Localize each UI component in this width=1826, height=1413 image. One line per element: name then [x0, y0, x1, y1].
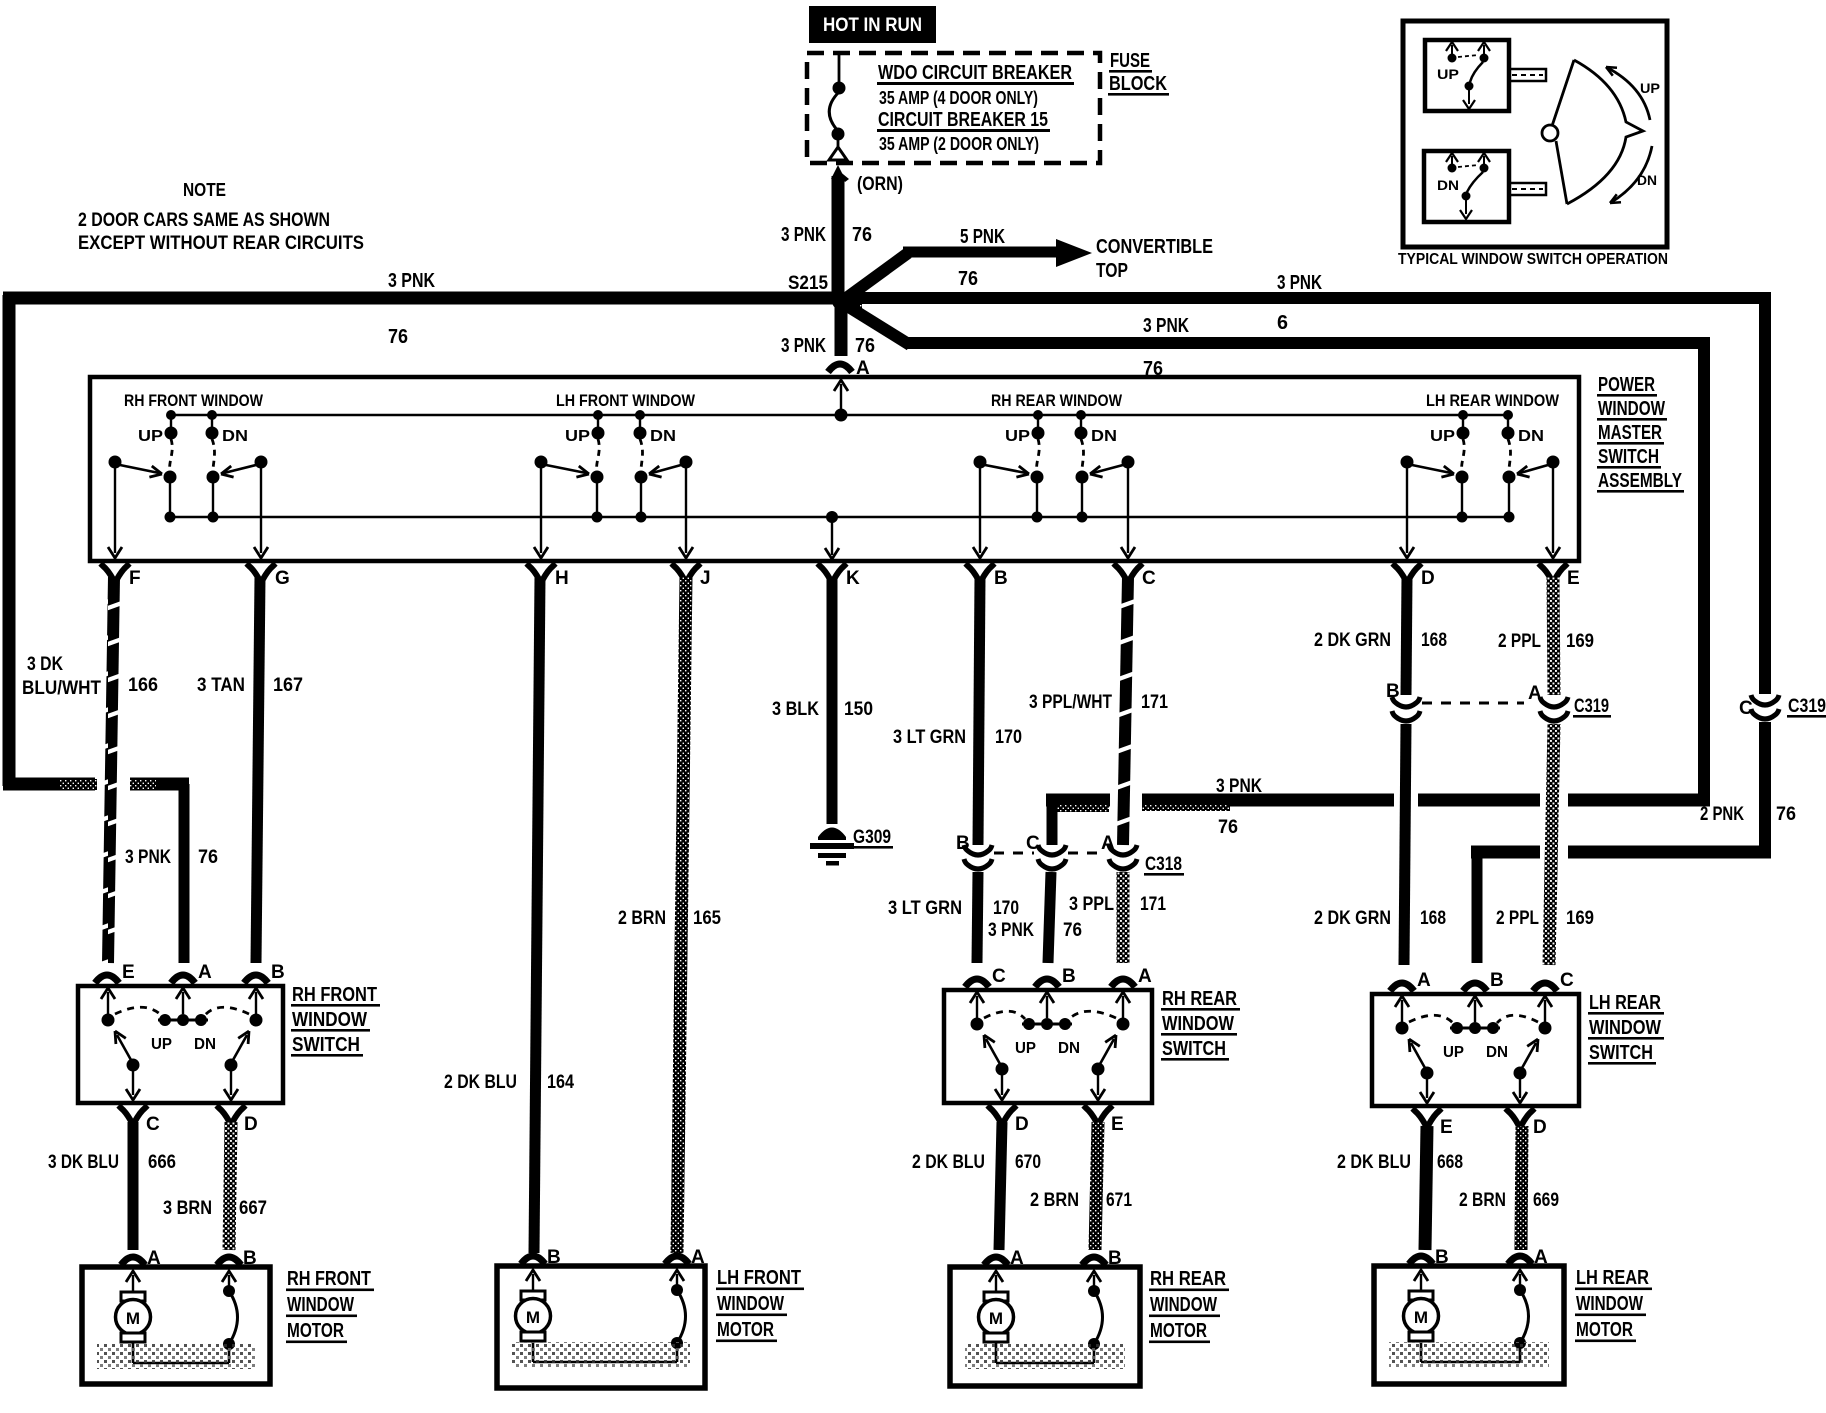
svg-text:WINDOW: WINDOW	[1150, 1294, 1217, 1316]
LH rear window rest blades dashed	[1409, 1015, 1453, 1023]
svg-text:2 PPL: 2 PPL	[1496, 908, 1539, 929]
RH rear window UP contact	[1037, 415, 1039, 428]
svg-text:A: A	[1101, 833, 1115, 854]
connector C319 left pair	[1392, 697, 1420, 707]
svg-text:D: D	[1533, 1117, 1547, 1138]
wire 2 PPL 169 from E to connector C319	[1553, 577, 1554, 695]
svg-text:DN: DN	[1091, 428, 1117, 445]
rocker UP arc arrow	[1606, 67, 1650, 120]
svg-text:M: M	[1414, 1308, 1428, 1327]
svg-text:RH REAR: RH REAR	[1150, 1268, 1226, 1290]
svg-text:171: 171	[1141, 692, 1168, 713]
LH rear window UP blade dashed	[1462, 439, 1465, 471]
RH rear window right blade with arrow	[1092, 1063, 1105, 1076]
RH rear window rest blades dashed	[984, 1011, 1025, 1019]
svg-text:3 PPL/WHT: 3 PPL/WHT	[1029, 692, 1112, 713]
LH front window UP blade dashed	[597, 439, 600, 471]
svg-text:F: F	[129, 568, 141, 589]
svg-text:C318: C318	[1145, 854, 1182, 875]
svg-text:2 BRN: 2 BRN	[1030, 1190, 1079, 1211]
svg-text:LH REAR: LH REAR	[1576, 1267, 1649, 1289]
svg-text:BLOCK: BLOCK	[1109, 73, 1167, 95]
svg-text:SWITCH: SWITCH	[1589, 1042, 1653, 1064]
RH front window center pivot cluster	[158, 1019, 208, 1022]
wire 3 PPL 171 below C318 to RH rear switch A	[1117, 872, 1130, 963]
svg-text:3 PNK: 3 PNK	[388, 270, 435, 292]
RH rear window outer contacts	[971, 1018, 984, 1031]
svg-text:2 DK GRN: 2 DK GRN	[1314, 908, 1391, 929]
svg-text:(ORN): (ORN)	[857, 174, 903, 195]
LH rear window pivots to bottom bus	[1456, 471, 1469, 484]
RH rear window left output drop	[979, 468, 981, 553]
svg-text:K: K	[846, 568, 860, 589]
svg-text:H: H	[555, 568, 569, 589]
switch paddle stems	[1509, 69, 1546, 81]
svg-text:S215: S215	[788, 273, 828, 294]
svg-text:3 PNK: 3 PNK	[1143, 315, 1189, 337]
LH rear window center pivot cluster	[1450, 1027, 1500, 1030]
svg-text:RH FRONT: RH FRONT	[287, 1268, 371, 1290]
ground G309	[818, 828, 846, 841]
svg-text:UP: UP	[138, 428, 163, 445]
wire 3 PPL/WHT 171 striped from C to connector C318	[1123, 577, 1128, 845]
wire 5 PNK branch to convertible top with arrow	[845, 253, 908, 299]
svg-text:UP: UP	[1005, 428, 1030, 445]
svg-text:UP: UP	[1430, 428, 1455, 445]
svg-text:HOT IN RUN: HOT IN RUN	[823, 15, 922, 36]
LH front window DN contact	[639, 415, 641, 428]
svg-text:169: 169	[1566, 631, 1594, 652]
RH rear window left contact with arrow to pivot	[974, 456, 987, 469]
svg-text:M: M	[989, 1309, 1003, 1328]
svg-text:76: 76	[852, 224, 872, 246]
RH front window terminal stems	[101, 988, 115, 999]
terminal A of master switch	[828, 364, 852, 372]
RH front window outer contacts	[102, 1014, 115, 1027]
svg-text:UP: UP	[1015, 1040, 1036, 1057]
svg-text:3 BLK: 3 BLK	[772, 699, 819, 720]
LH rear window right contact with arrow to pivot	[1547, 456, 1560, 469]
svg-text:D: D	[1421, 568, 1435, 589]
wire 2 DK BLU 670	[999, 1122, 1002, 1250]
RH rear window terminal caps	[984, 1257, 1008, 1265]
svg-text:WDO CIRCUIT BREAKER: WDO CIRCUIT BREAKER	[878, 62, 1072, 84]
wire 2 DK BLU 164 from H to LH front motor	[534, 577, 540, 1253]
circuit breaker 15 symbol	[838, 53, 841, 84]
svg-text:MOTOR: MOTOR	[717, 1319, 774, 1341]
connector C319 right	[1751, 695, 1779, 705]
svg-text:WINDOW: WINDOW	[1598, 398, 1665, 420]
RH front window motor box	[82, 1267, 270, 1384]
RH rear window left blade with arrow	[996, 1063, 1009, 1076]
RH front window pivots to bottom bus	[164, 471, 177, 484]
svg-text:2 DOOR CARS SAME AS SHOWN: 2 DOOR CARS SAME AS SHOWN	[78, 210, 330, 231]
RH front window terminal caps	[121, 1257, 145, 1265]
LH front window scan noise band	[512, 1342, 690, 1368]
svg-text:DN: DN	[1518, 428, 1544, 445]
svg-text:171: 171	[1140, 894, 1166, 915]
svg-text:76: 76	[198, 847, 218, 868]
wire ORN from splice S215 up to fuse block with arrow	[831, 165, 845, 179]
svg-text:3 PNK: 3 PNK	[1216, 776, 1262, 797]
svg-text:2 DK BLU: 2 DK BLU	[444, 1072, 517, 1093]
svg-text:DN: DN	[650, 428, 676, 445]
svg-text:B: B	[994, 568, 1008, 589]
svg-text:164: 164	[547, 1072, 574, 1093]
RH front window left blade with arrow	[127, 1059, 140, 1072]
RH front window left contact with arrow to pivot	[109, 456, 122, 469]
wire 3 BLK 150 from K to ground	[827, 577, 838, 824]
svg-text:EXCEPT WITHOUT REAR CIRCUITS: EXCEPT WITHOUT REAR CIRCUITS	[78, 233, 364, 254]
LH front window UP contact	[597, 415, 599, 428]
svg-text:E: E	[1111, 1114, 1124, 1135]
wire 2 BRN 671	[1095, 1122, 1098, 1250]
svg-text:668: 668	[1437, 1152, 1463, 1173]
svg-text:E: E	[1567, 568, 1580, 589]
svg-text:6: 6	[1277, 312, 1288, 334]
svg-text:2 DK BLU: 2 DK BLU	[1337, 1152, 1411, 1173]
svg-text:POWER: POWER	[1598, 374, 1655, 396]
svg-text:UP: UP	[565, 428, 590, 445]
svg-text:MOTOR: MOTOR	[287, 1320, 344, 1342]
terminal A feed into top bus	[834, 380, 848, 391]
svg-text:B: B	[1490, 970, 1504, 991]
wire 3 PNK 76 left from splice to left edge and down	[3, 292, 841, 305]
svg-text:WINDOW: WINDOW	[1576, 1293, 1643, 1315]
svg-text:C319: C319	[1574, 696, 1609, 717]
svg-text:A: A	[147, 1248, 161, 1269]
svg-text:671: 671	[1106, 1190, 1132, 1211]
svg-text:2 PNK: 2 PNK	[1700, 804, 1744, 825]
LH front window motor box	[497, 1266, 705, 1388]
LH front window terminal caps	[521, 1256, 545, 1264]
right wire 3 PNK from second branch down	[1698, 337, 1710, 806]
LH front window motor M symbol	[526, 1270, 540, 1281]
svg-text:168: 168	[1420, 908, 1446, 929]
svg-text:169: 169	[1566, 908, 1594, 929]
svg-text:C: C	[992, 966, 1006, 987]
svg-text:76: 76	[958, 268, 978, 290]
connector C318	[964, 845, 992, 855]
horizontal 2 PNK 76 jog to LH rear switch B	[1568, 846, 1771, 859]
wire 3 LT GRN 170 from B to connector C318	[978, 577, 980, 845]
svg-text:A: A	[1534, 1247, 1548, 1268]
svg-text:A: A	[1528, 683, 1542, 704]
RH rear window right output drop	[1127, 468, 1129, 553]
LH rear window UP contact	[1462, 415, 1464, 428]
svg-text:G309: G309	[853, 827, 891, 848]
RH front window UP blade dashed	[170, 439, 173, 471]
svg-text:168: 168	[1421, 630, 1447, 651]
svg-text:RH REAR WINDOW: RH REAR WINDOW	[991, 391, 1123, 410]
RH rear window UP blade dashed	[1037, 439, 1040, 471]
svg-text:3 PPL: 3 PPL	[1069, 894, 1114, 915]
svg-text:B: B	[1062, 966, 1076, 987]
svg-text:5 PNK: 5 PNK	[960, 226, 1005, 248]
svg-text:666: 666	[148, 1152, 176, 1173]
svg-text:A: A	[1417, 970, 1431, 991]
HOT IN RUN power tag	[809, 6, 936, 43]
LH rear window switch box	[1372, 994, 1579, 1106]
svg-text:DN: DN	[1058, 1040, 1080, 1057]
svg-text:A: A	[1010, 1248, 1024, 1269]
wire 2 BRN 165 from J to LH front motor	[677, 577, 686, 1253]
LH front window left contact with arrow to pivot	[535, 456, 548, 469]
LH front window pivots to bottom bus	[591, 471, 604, 484]
svg-text:TYPICAL WINDOW SWITCH OPERATIO: TYPICAL WINDOW SWITCH OPERATION	[1398, 251, 1668, 268]
svg-text:ASSEMBLY: ASSEMBLY	[1598, 470, 1682, 492]
svg-text:670: 670	[1015, 1152, 1041, 1173]
svg-text:2 DK GRN: 2 DK GRN	[1314, 630, 1391, 651]
RH rear window center pivot cluster	[1022, 1023, 1072, 1026]
svg-text:C319: C319	[1788, 696, 1826, 717]
svg-text:3 LT GRN: 3 LT GRN	[893, 727, 966, 748]
LH rear window terminal caps	[1409, 1256, 1433, 1264]
RH front window output drops	[132, 1068, 134, 1095]
svg-text:2 BRN: 2 BRN	[618, 908, 666, 929]
RH front window switch box	[78, 986, 283, 1103]
svg-text:3 DK: 3 DK	[27, 654, 63, 675]
RH front window motor M symbol	[126, 1271, 140, 1282]
LH rear window internal jumper	[1421, 1361, 1520, 1364]
rocker DN arc arrow	[1610, 146, 1652, 203]
svg-text:CIRCUIT BREAKER 15: CIRCUIT BREAKER 15	[878, 109, 1048, 131]
LH rear window left blade with arrow	[1421, 1067, 1434, 1080]
fuse block dashed box	[807, 53, 1100, 163]
LH front window right contact with arrow to pivot	[680, 456, 693, 469]
svg-text:G: G	[275, 568, 290, 589]
svg-text:RH FRONT WINDOW: RH FRONT WINDOW	[124, 391, 264, 410]
RH front window DN blade dashed	[212, 439, 215, 471]
svg-text:C: C	[146, 1114, 160, 1135]
svg-text:DN: DN	[1637, 172, 1657, 188]
svg-text:2 PPL: 2 PPL	[1498, 631, 1541, 652]
svg-text:UP: UP	[1437, 66, 1459, 82]
svg-text:A: A	[198, 962, 212, 983]
svg-text:DN: DN	[1437, 177, 1459, 193]
LH front window right output drop	[685, 468, 687, 553]
svg-text:SWITCH: SWITCH	[292, 1034, 360, 1056]
svg-text:76: 76	[1063, 920, 1082, 941]
wire 3 BRN 667	[229, 1122, 231, 1250]
LH front window left output drop	[540, 468, 542, 553]
svg-text:M: M	[126, 1309, 140, 1328]
LH rear window scan noise band	[1389, 1342, 1549, 1368]
RH front window UP contact	[170, 415, 172, 428]
RH rear window output drops	[1001, 1072, 1003, 1095]
RH front window scan noise band	[97, 1343, 255, 1369]
master switch top bus wire	[171, 414, 1508, 417]
wire 3 PNK upper right from splice to right side	[846, 292, 1771, 304]
typical switch UP contact detail box	[1425, 40, 1509, 111]
RH rear window scan noise band	[965, 1343, 1125, 1369]
svg-text:667: 667	[239, 1198, 267, 1219]
svg-text:C: C	[1026, 833, 1040, 854]
svg-text:UP: UP	[1443, 1044, 1464, 1061]
RH front window DN contact	[211, 415, 213, 428]
svg-text:FUSE: FUSE	[1110, 50, 1150, 72]
svg-text:B: B	[1108, 1248, 1122, 1269]
svg-text:B: B	[1386, 681, 1400, 702]
LH rear window motor M symbol	[1414, 1270, 1428, 1281]
horizontal 3 PNK 76 jog to C318	[1568, 794, 1710, 807]
typical window switch operation box	[1403, 21, 1667, 247]
wire 3 LT GRN 170 3 PNK below C318 to RH rear switch	[977, 872, 978, 963]
wire 2 DK GRN 168 below C319 to LH rear switch A	[1404, 724, 1406, 965]
RH front window internal jumper	[133, 1362, 229, 1365]
svg-text:TOP: TOP	[1096, 260, 1128, 282]
RH front window rest blades dashed	[115, 1007, 161, 1015]
wire 3 DK BLU/WHT 166 striped from F	[108, 577, 114, 963]
LH rear window DN contact	[1507, 415, 1509, 428]
svg-text:150: 150	[844, 699, 873, 720]
RH front window right output drop	[260, 468, 262, 553]
RH rear window DN contact	[1080, 415, 1082, 428]
svg-text:B: B	[243, 1248, 257, 1269]
svg-text:35 AMP (2 DOOR ONLY): 35 AMP (2 DOOR ONLY)	[879, 134, 1039, 154]
svg-text:LH REAR: LH REAR	[1589, 992, 1661, 1014]
svg-text:B: B	[547, 1247, 561, 1268]
svg-text:E: E	[122, 962, 135, 983]
master switch bottom bus wire	[169, 516, 1508, 519]
svg-text:NOTE: NOTE	[183, 180, 226, 200]
LH rear window terminal stems	[1395, 996, 1409, 1007]
LH rear window output drops	[1426, 1076, 1428, 1098]
power window master switch assembly box	[90, 377, 1579, 561]
RH rear window terminal stems	[970, 992, 984, 1003]
svg-text:669: 669	[1533, 1190, 1559, 1211]
RH rear window motor box	[950, 1267, 1140, 1386]
master switch output connectors F G H J K B C D E	[101, 564, 130, 581]
LH front window DN blade dashed	[640, 439, 643, 471]
svg-text:35 AMP (4 DOOR ONLY): 35 AMP (4 DOOR ONLY)	[879, 88, 1038, 108]
RH front window right contact with arrow to pivot	[255, 456, 268, 469]
svg-text:76: 76	[1776, 804, 1796, 825]
svg-text:3 TAN: 3 TAN	[197, 675, 245, 696]
svg-text:3 PNK: 3 PNK	[781, 224, 826, 246]
svg-text:3 PNK: 3 PNK	[1277, 272, 1322, 294]
svg-text:3 PNK: 3 PNK	[125, 847, 171, 868]
svg-text:RH FRONT: RH FRONT	[292, 984, 377, 1006]
svg-text:3 PNK: 3 PNK	[781, 335, 826, 357]
svg-text:3 BRN: 3 BRN	[163, 1198, 212, 1219]
svg-text:A: A	[691, 1247, 705, 1268]
RH front window left output drop	[114, 468, 116, 553]
svg-text:3 PNK: 3 PNK	[988, 920, 1034, 941]
svg-text:B: B	[271, 962, 285, 983]
RH front window exit connectors	[119, 1106, 148, 1123]
svg-text:MOTOR: MOTOR	[1150, 1320, 1207, 1342]
svg-text:C: C	[1739, 698, 1753, 719]
LH rear window right blade with arrow	[1514, 1067, 1527, 1080]
svg-text:LH FRONT WINDOW: LH FRONT WINDOW	[556, 391, 696, 410]
svg-text:DN: DN	[222, 428, 248, 445]
svg-text:SWITCH: SWITCH	[1162, 1038, 1226, 1060]
svg-text:WINDOW: WINDOW	[1589, 1017, 1661, 1039]
svg-text:WINDOW: WINDOW	[1162, 1013, 1234, 1035]
rocker switch lens shape	[1567, 60, 1643, 204]
right wire 3 PNK 76 upper loop down	[1759, 292, 1771, 694]
RH rear window DN blade dashed	[1081, 439, 1084, 471]
RH front window right blade with arrow	[225, 1059, 238, 1072]
svg-text:DN: DN	[194, 1036, 216, 1053]
svg-text:E: E	[1440, 1117, 1453, 1138]
svg-text:165: 165	[693, 908, 721, 929]
RH rear window exit connectors	[988, 1106, 1017, 1123]
svg-text:M: M	[526, 1308, 540, 1327]
svg-text:LH FRONT: LH FRONT	[717, 1267, 801, 1289]
LH rear window outer contacts	[1396, 1022, 1409, 1035]
typical switch DN contact detail box	[1424, 151, 1509, 222]
svg-text:76: 76	[855, 335, 875, 357]
svg-text:76: 76	[388, 326, 408, 348]
svg-text:2 DK BLU: 2 DK BLU	[912, 1152, 985, 1173]
wire 2 BRN 669	[1521, 1126, 1522, 1250]
LH rear window left contact with arrow to pivot	[1401, 456, 1414, 469]
svg-text:DN: DN	[1486, 1044, 1508, 1061]
LH rear window right output drop	[1552, 468, 1554, 553]
svg-text:3 LT GRN: 3 LT GRN	[888, 898, 962, 919]
svg-text:UP: UP	[1640, 80, 1660, 96]
svg-text:J: J	[700, 568, 711, 589]
wire 3 TAN 167 from G	[256, 577, 260, 963]
wire 3 DK BLU 666	[128, 1122, 139, 1250]
LH rear window exit connectors	[1413, 1109, 1442, 1126]
svg-text:B: B	[956, 833, 970, 854]
wire 2 DK BLU 668	[1425, 1126, 1427, 1250]
svg-text:MASTER: MASTER	[1598, 422, 1662, 444]
svg-text:LH REAR WINDOW: LH REAR WINDOW	[1426, 391, 1560, 410]
svg-text:B: B	[1435, 1247, 1449, 1268]
svg-text:170: 170	[995, 727, 1022, 748]
RH rear window internal jumper	[996, 1362, 1094, 1365]
RH front window terminal caps and letters	[95, 975, 119, 983]
LH rear window left output drop	[1406, 468, 1408, 553]
svg-text:A: A	[1138, 966, 1152, 987]
LH rear window terminal caps and letters	[1390, 983, 1414, 991]
svg-text:167: 167	[273, 675, 303, 696]
svg-text:D: D	[1015, 1114, 1029, 1135]
svg-text:C: C	[1142, 568, 1156, 589]
wire 3 PNK 76 below C318 to RH rear switch B	[1048, 872, 1051, 963]
RH rear window motor M symbol	[989, 1271, 1003, 1282]
RH rear window terminal caps and letters	[965, 979, 989, 987]
svg-text:CONVERTIBLE: CONVERTIBLE	[1096, 236, 1213, 258]
RH rear window pivots to bottom bus	[1031, 471, 1044, 484]
svg-text:2 BRN: 2 BRN	[1459, 1190, 1506, 1211]
svg-text:76: 76	[1218, 817, 1238, 838]
RH rear window right contact with arrow to pivot	[1122, 456, 1135, 469]
svg-text:UP: UP	[151, 1036, 172, 1053]
svg-text:RH REAR: RH REAR	[1162, 988, 1237, 1010]
svg-text:SWITCH: SWITCH	[1598, 446, 1659, 468]
wire 3 PNK 76 horizontal from left edge to RH front switch A	[3, 778, 95, 791]
LH front window internal jumper	[533, 1361, 677, 1364]
svg-text:WINDOW: WINDOW	[287, 1294, 354, 1316]
svg-text:WINDOW: WINDOW	[717, 1293, 784, 1315]
svg-text:166: 166	[128, 675, 158, 696]
svg-text:MOTOR: MOTOR	[1576, 1319, 1633, 1341]
svg-text:C: C	[1560, 970, 1574, 991]
terminal K drop from bottom bus	[826, 511, 838, 523]
svg-text:3 DK BLU: 3 DK BLU	[48, 1152, 119, 1173]
svg-text:WINDOW: WINDOW	[292, 1009, 367, 1031]
wire 2 DK GRN 168 from D to connector C319	[1406, 577, 1407, 695]
svg-text:170: 170	[993, 898, 1019, 919]
wire 2 PPL 169 below C319 to LH rear switch C	[1549, 724, 1554, 965]
wire 3 PNK 76 from splice down to master switch terminal A	[835, 301, 848, 356]
LH rear window motor box	[1374, 1266, 1564, 1384]
